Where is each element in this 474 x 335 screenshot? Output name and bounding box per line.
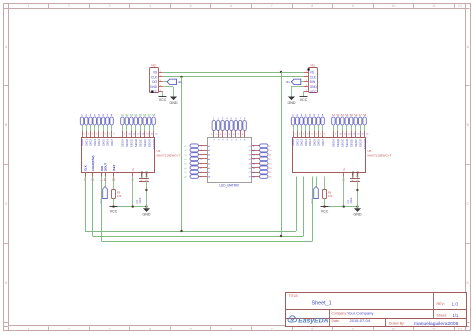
svg-text:GND: GND xyxy=(170,101,178,105)
svg-text:CLK: CLK xyxy=(310,75,317,79)
svg-text:VCC: VCC xyxy=(310,90,317,94)
svg-text:R5: R5 xyxy=(117,191,121,195)
svg-text:13: 13 xyxy=(353,134,355,136)
svg-text:9: 9 xyxy=(124,134,125,136)
svg-text:Company:: Company: xyxy=(332,311,348,315)
svg-text:MAX7219EWG+T: MAX7219EWG+T xyxy=(157,154,181,158)
svg-text:CLK: CLK xyxy=(83,165,87,171)
svg-text:V+: V+ xyxy=(131,167,135,171)
svg-text:12K: 12K xyxy=(328,194,333,198)
svg-text:12: 12 xyxy=(458,4,462,8)
svg-text:5: 5 xyxy=(101,134,102,136)
svg-text:10: 10 xyxy=(128,134,130,136)
svg-text:GND: GND xyxy=(351,171,355,177)
svg-text:SEGF: SEGF xyxy=(354,139,358,147)
svg-text:10: 10 xyxy=(391,328,395,332)
svg-text:U5: U5 xyxy=(368,149,372,153)
svg-text:SEGB: SEGB xyxy=(336,139,340,147)
svg-text:9: 9 xyxy=(335,134,336,136)
svg-text:1: 1 xyxy=(28,4,30,8)
svg-text:8: 8 xyxy=(311,4,313,8)
svg-text:6: 6 xyxy=(230,4,232,8)
svg-text:1: 1 xyxy=(28,328,30,332)
svg-text:V+: V+ xyxy=(342,167,346,171)
svg-text:3: 3 xyxy=(109,4,111,8)
svg-text:SEGD: SEGD xyxy=(345,139,349,147)
svg-text:SEGG: SEGG xyxy=(358,138,362,147)
svg-text:5: 5 xyxy=(312,134,313,136)
svg-text:10: 10 xyxy=(391,4,395,8)
svg-text:VCC: VCC xyxy=(110,210,118,214)
svg-text:VCC: VCC xyxy=(321,210,329,214)
svg-text:12: 12 xyxy=(348,134,350,136)
svg-text:GND: GND xyxy=(356,171,360,177)
svg-text:H1: H1 xyxy=(311,63,315,67)
svg-text:3: 3 xyxy=(92,134,93,136)
svg-text:1/1: 1/1 xyxy=(453,313,459,318)
svg-text:6: 6 xyxy=(316,134,317,136)
svg-text:GND: GND xyxy=(310,85,318,89)
svg-text:GND: GND xyxy=(145,171,149,177)
svg-text:SEGG: SEGG xyxy=(147,138,151,147)
svg-text:12: 12 xyxy=(137,134,139,136)
svg-text:VS: VS xyxy=(310,70,314,74)
svg-text:9: 9 xyxy=(352,4,354,8)
svg-text:3: 3 xyxy=(109,328,111,332)
svg-text:DIN: DIN xyxy=(310,80,316,84)
svg-text:8: 8 xyxy=(324,134,325,136)
svg-text:SEGF: SEGF xyxy=(143,139,147,147)
svg-text:H2: H2 xyxy=(152,63,156,67)
svg-text:1: 1 xyxy=(295,134,296,136)
svg-text:manuelaguilera2008: manuelaguilera2008 xyxy=(414,321,459,327)
svg-text:4: 4 xyxy=(96,134,97,136)
svg-text:7: 7 xyxy=(109,134,110,136)
svg-text:SEGE: SEGE xyxy=(138,139,142,147)
svg-text:LOAD(CS#): LOAD(CS#) xyxy=(91,156,95,171)
svg-text:14: 14 xyxy=(357,134,359,136)
svg-text:GND: GND xyxy=(140,171,144,177)
svg-text:14: 14 xyxy=(146,134,148,136)
svg-text:6: 6 xyxy=(105,134,106,136)
svg-text:D: D xyxy=(466,281,469,285)
svg-text:GND: GND xyxy=(354,213,362,217)
svg-text:16: 16 xyxy=(155,134,157,136)
svg-text:din: din xyxy=(178,80,182,84)
svg-text:2: 2 xyxy=(299,134,300,136)
svg-text:1: 1 xyxy=(84,134,85,136)
svg-text:VCC: VCC xyxy=(159,98,167,102)
svg-text:R6: R6 xyxy=(328,191,332,195)
svg-text:4: 4 xyxy=(307,134,308,136)
svg-text:EasyEDA: EasyEDA xyxy=(298,318,328,325)
svg-text:SEGB: SEGB xyxy=(125,139,129,147)
svg-text:TITLE:: TITLE: xyxy=(289,294,299,298)
svg-text:Sheet:: Sheet: xyxy=(437,314,447,318)
svg-text:ISET: ISET xyxy=(112,164,116,171)
svg-text:LED_MATRIX: LED_MATRIX xyxy=(219,183,240,187)
svg-text:DOUT: DOUT xyxy=(103,163,107,171)
svg-text:D: D xyxy=(5,281,8,285)
svg-text:7: 7 xyxy=(271,4,273,8)
svg-text:Drawn By:: Drawn By: xyxy=(389,322,405,326)
svg-text:SEGDP: SEGDP xyxy=(363,139,367,149)
svg-text:11: 11 xyxy=(432,4,436,8)
svg-text:REV:: REV: xyxy=(437,302,445,306)
svg-text:GND: GND xyxy=(288,101,296,105)
svg-text:GND: GND xyxy=(143,213,151,217)
svg-text:10: 10 xyxy=(339,134,341,136)
svg-text:7: 7 xyxy=(271,328,273,332)
svg-text:2019-07-04: 2019-07-04 xyxy=(350,318,371,323)
svg-text:DIG7: DIG7 xyxy=(321,139,325,146)
svg-text:15: 15 xyxy=(362,134,364,136)
svg-text:15: 15 xyxy=(151,134,153,136)
svg-text:4: 4 xyxy=(149,328,151,332)
svg-text:SEGC: SEGC xyxy=(130,139,134,147)
svg-text:12K: 12K xyxy=(117,194,122,198)
svg-text:2: 2 xyxy=(88,134,89,136)
svg-text:10uF: 10uF xyxy=(138,197,142,203)
svg-text:4: 4 xyxy=(149,4,151,8)
svg-text:11: 11 xyxy=(344,134,346,136)
svg-text:5: 5 xyxy=(190,328,192,332)
svg-text:13: 13 xyxy=(142,134,144,136)
svg-text:Sheet_1: Sheet_1 xyxy=(312,301,332,307)
svg-text:Date:: Date: xyxy=(332,319,340,323)
svg-text:VCC: VCC xyxy=(300,98,308,102)
svg-text:2: 2 xyxy=(68,4,70,8)
svg-text:11: 11 xyxy=(432,328,436,332)
svg-text:SEGE: SEGE xyxy=(349,139,353,147)
svg-text:2: 2 xyxy=(68,328,70,332)
svg-text:CLK: CLK xyxy=(151,75,158,79)
svg-text:SEGDP: SEGDP xyxy=(152,139,156,149)
svg-text:3: 3 xyxy=(303,134,304,136)
svg-text:DO: DO xyxy=(152,80,157,84)
svg-text:7: 7 xyxy=(320,134,321,136)
svg-text:8: 8 xyxy=(113,134,114,136)
svg-text:SEGD: SEGD xyxy=(134,139,138,147)
svg-text:U3: U3 xyxy=(157,149,161,153)
svg-text:SEGC: SEGC xyxy=(341,139,345,147)
svg-text:GND: GND xyxy=(150,85,158,89)
svg-text:11: 11 xyxy=(133,134,135,136)
svg-text:16: 16 xyxy=(366,134,368,136)
svg-text:10uF: 10uF xyxy=(349,197,353,203)
svg-text:12: 12 xyxy=(458,328,462,332)
svg-text:6: 6 xyxy=(230,328,232,332)
svg-text:5: 5 xyxy=(190,4,192,8)
svg-text:1.0: 1.0 xyxy=(452,301,459,306)
svg-text:Your Company: Your Company xyxy=(347,311,373,316)
svg-text:9: 9 xyxy=(352,328,354,332)
svg-text:C: C xyxy=(466,202,469,206)
svg-text:8: 8 xyxy=(311,328,313,332)
svg-text:SEGA: SEGA xyxy=(332,139,336,147)
svg-text:C: C xyxy=(5,202,8,206)
svg-text:MAX7219EWG+T: MAX7219EWG+T xyxy=(368,154,392,158)
svg-text:din: din xyxy=(286,80,290,84)
svg-text:SEGA: SEGA xyxy=(121,139,125,147)
svg-text:DIG7: DIG7 xyxy=(110,139,114,146)
svg-text:VS: VS xyxy=(153,70,157,74)
